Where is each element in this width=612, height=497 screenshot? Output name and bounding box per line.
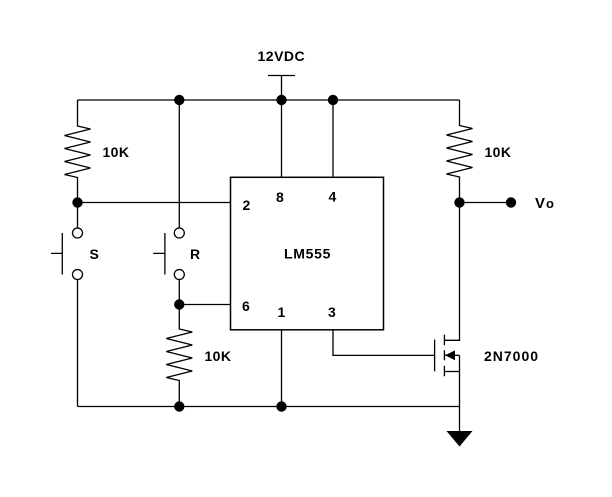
wire pin1 to rail <box>281 330 283 407</box>
wire S branch bottom <box>77 280 79 407</box>
wire Vo stub <box>460 202 512 204</box>
svg-text:6: 6 <box>242 298 250 314</box>
resistor R3 10K right <box>447 100 473 203</box>
switch R pushbutton <box>174 228 184 238</box>
node rail-pin8 junction <box>276 95 286 105</box>
wire R branch from rail <box>178 100 180 228</box>
svg-text:10K: 10K <box>103 144 130 160</box>
node pin6 junction <box>174 299 184 309</box>
svg-text:3: 3 <box>328 304 336 320</box>
op-amp U1 LM555 box <box>231 177 384 329</box>
wire top rail <box>78 99 460 101</box>
svg-text:LM555: LM555 <box>284 246 331 262</box>
svg-text:R: R <box>190 246 200 262</box>
wire source vertical to ground <box>459 355 461 431</box>
node rail-R2 junction <box>174 401 184 411</box>
wire pin2 horizontal <box>78 202 231 204</box>
resistor R2 10K pulldown <box>166 305 192 407</box>
power 12VDC supply symbol <box>268 76 295 101</box>
node Vo terminal <box>506 197 516 207</box>
wire drain vertical <box>444 203 459 341</box>
wire pin4 from rail <box>332 100 334 177</box>
node pin2 junction <box>72 197 82 207</box>
node Vo junction <box>454 197 464 207</box>
transistor Q1 2N7000 <box>434 340 436 372</box>
svg-text:V: V <box>535 195 545 212</box>
wire pin8 from rail <box>281 100 283 177</box>
svg-text:12VDC: 12VDC <box>258 48 306 64</box>
svg-text:S: S <box>90 246 99 262</box>
wire R branch bottom <box>178 280 180 305</box>
node rail-R junction <box>174 95 184 105</box>
svg-text:8: 8 <box>276 189 284 205</box>
switch S pushbutton <box>73 228 83 238</box>
svg-text:2: 2 <box>243 197 251 213</box>
svg-text:2N7000: 2N7000 <box>484 348 539 364</box>
node rail-pin1 junction <box>276 401 286 411</box>
svg-text:10K: 10K <box>205 348 232 364</box>
transistor arrow <box>445 350 455 360</box>
ground <box>447 431 473 447</box>
wire pin3 to gate <box>333 330 435 356</box>
wire S branch top <box>77 203 79 229</box>
node rail-pin4 junction <box>328 95 338 105</box>
svg-text:o: o <box>546 196 554 211</box>
wire pin6 horizontal <box>179 304 230 306</box>
svg-text:1: 1 <box>278 304 286 320</box>
wire bottom rail <box>78 406 460 408</box>
resistor R1 10K left <box>65 100 91 203</box>
svg-text:10K: 10K <box>485 144 512 160</box>
svg-text:4: 4 <box>329 189 337 205</box>
